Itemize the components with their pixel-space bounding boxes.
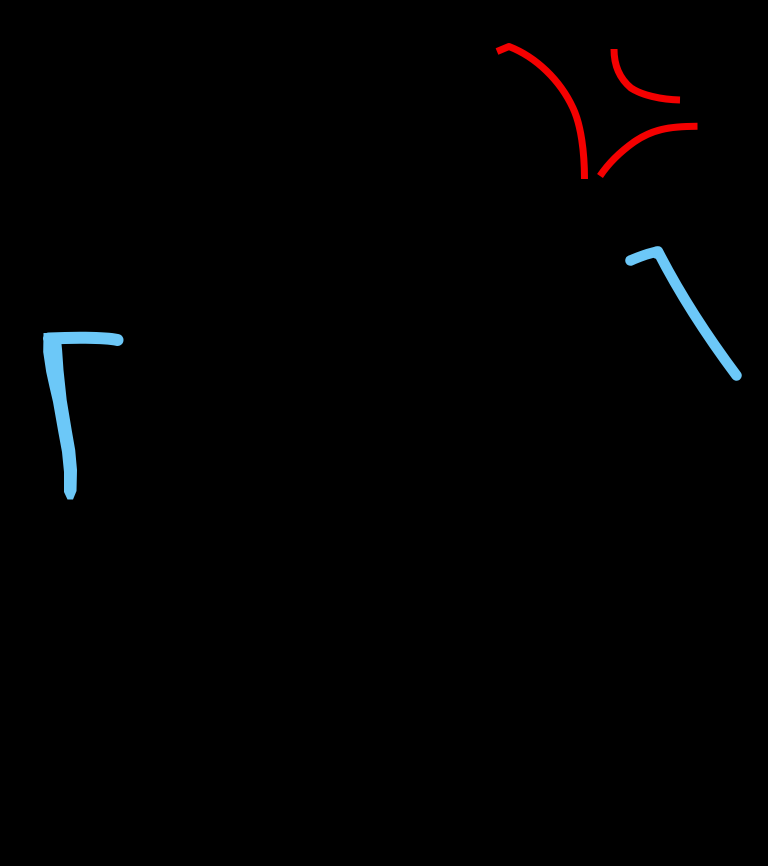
blue stroke left: tapered vertical bar of corner / gamma shape [43, 333, 77, 500]
red stroke 1 (upper-left curve with start hook) [497, 47, 585, 180]
red stroke 3 (lower-right curve) [600, 126, 698, 176]
red stroke 2 (top-right quarter arc) [614, 49, 680, 100]
blue stroke right: corner bulge [651, 246, 664, 259]
blue stroke right (hook and long diagonal) [631, 252, 737, 376]
blue stroke left: horizontal bar of corner / gamma shape [49, 338, 118, 340]
